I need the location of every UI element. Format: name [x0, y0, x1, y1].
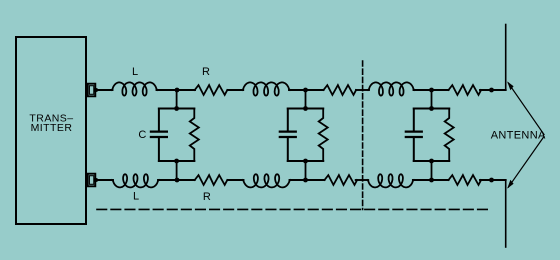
- svg-text:ANTENNA: ANTENNA: [491, 130, 546, 142]
- svg-text:L: L: [133, 191, 139, 203]
- svg-text:L: L: [132, 66, 138, 78]
- svg-text:R: R: [203, 191, 211, 203]
- svg-text:C: C: [138, 129, 146, 141]
- svg-text:R: R: [202, 66, 210, 78]
- svg-text:MITTER: MITTER: [31, 122, 73, 134]
